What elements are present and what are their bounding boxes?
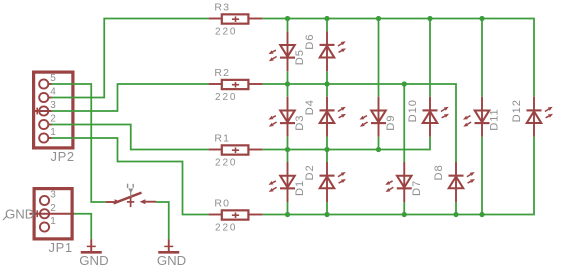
LED D12 — [527, 97, 554, 137]
wire net R3 (JP2 pin4 to R3 and LED top bus) — [51, 19, 534, 98]
resistor R0 — [209, 198, 263, 234]
svg-text:GND: GND — [157, 253, 186, 268]
svg-text:D8: D8 — [433, 164, 445, 180]
svg-text:220: 220 — [215, 222, 237, 233]
resistor R1 — [209, 133, 263, 169]
svg-text:GND: GND — [79, 253, 108, 268]
connector JP1 pins — [30, 196, 75, 232]
LED D8 — [449, 162, 476, 202]
svg-text:JP2: JP2 — [51, 149, 75, 164]
svg-text:4: 4 — [50, 87, 56, 98]
wire net R2 (JP2 pin3 to R2 and middle bus) — [51, 71, 456, 162]
LED D6 — [320, 31, 347, 71]
LED D9 — [360, 97, 387, 137]
svg-text:5: 5 — [50, 73, 56, 84]
svg-text:R2: R2 — [214, 67, 230, 79]
svg-text:D3: D3 — [294, 115, 306, 131]
LED D7 — [385, 162, 412, 202]
ground symbol GND (right) — [157, 239, 186, 268]
switch S1 — [106, 184, 156, 207]
svg-text:2: 2 — [50, 114, 56, 125]
svg-text:220: 220 — [215, 157, 237, 168]
svg-text:R1: R1 — [214, 133, 230, 145]
svg-text:D6: D6 — [304, 34, 316, 50]
connector JP2 — [34, 72, 73, 148]
svg-text:R3: R3 — [214, 2, 230, 14]
svg-text:220: 220 — [215, 92, 237, 103]
LED D1 — [269, 162, 296, 202]
wire switch to GND — [156, 202, 169, 239]
ground symbol GND (left) — [79, 239, 108, 268]
connector JP1 — [34, 189, 72, 239]
junction dots net R0 — [285, 212, 485, 217]
LED D4 — [320, 97, 347, 137]
LED D3 — [269, 97, 296, 137]
wire net R0 (JP2 pin1 to R0 and bottom bus) — [51, 137, 534, 215]
LED D11 — [463, 97, 490, 137]
LED D2 — [320, 162, 347, 202]
svg-text:220: 220 — [215, 26, 237, 37]
svg-text:D5: D5 — [294, 49, 306, 65]
svg-text:D11: D11 — [489, 108, 501, 130]
svg-text:3: 3 — [50, 190, 56, 201]
svg-text:D2: D2 — [304, 164, 316, 180]
svg-text:2: 2 — [50, 203, 56, 214]
svg-text:D4: D4 — [304, 99, 316, 115]
wire JP2 pin5 to switch — [51, 84, 106, 202]
svg-text:1: 1 — [50, 127, 56, 138]
svg-text:R0: R0 — [214, 198, 230, 210]
resistor R3 — [209, 2, 263, 38]
svg-text:D12: D12 — [511, 99, 523, 122]
resistor R2 — [209, 67, 263, 103]
svg-text:D1: D1 — [294, 180, 306, 196]
LED D5 — [269, 31, 296, 71]
junction dots net R3 — [285, 16, 485, 21]
JP2 pin numbers — [50, 73, 56, 138]
wire net R1 (JP2 pin2 to R1 and third bus) — [51, 125, 430, 163]
connector JP2 pins — [35, 79, 52, 142]
svg-text:JP1: JP1 — [49, 240, 73, 255]
wire JP1 pin2 to GND — [74, 214, 92, 239]
svg-text:GND: GND — [5, 207, 34, 222]
svg-text:3: 3 — [50, 100, 56, 111]
LED D10 — [423, 97, 450, 137]
junction dots net R2 — [285, 81, 407, 86]
net label GND at JP1 — [3, 207, 34, 222]
junction dots net R1 — [285, 147, 381, 152]
svg-text:D10: D10 — [407, 99, 419, 122]
svg-text:D9: D9 — [385, 115, 397, 131]
JP1 pin numbers — [50, 190, 56, 228]
svg-text:D7: D7 — [411, 180, 423, 196]
svg-text:1: 1 — [50, 216, 56, 227]
